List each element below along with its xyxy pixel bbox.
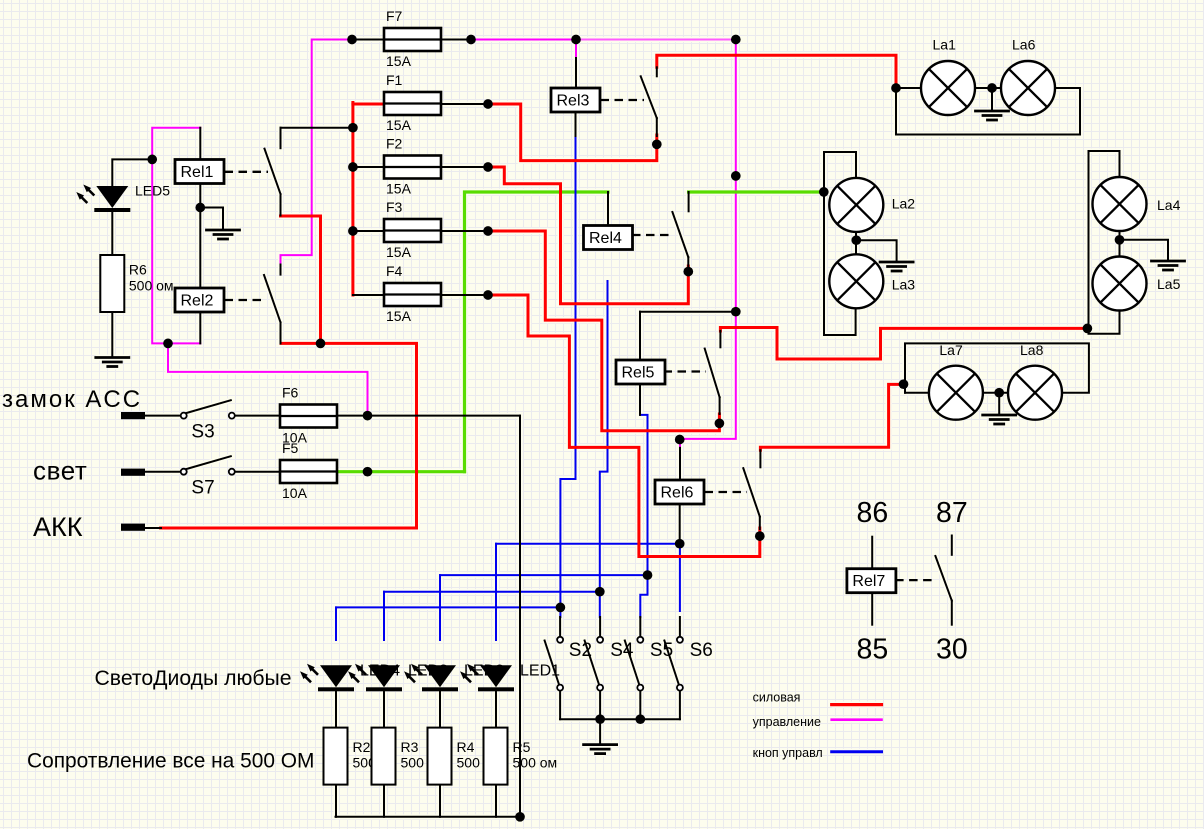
svg-text:S6: S6	[690, 640, 713, 661]
svg-text:LED5: LED5	[135, 182, 170, 198]
svg-text:F2: F2	[386, 136, 403, 152]
svg-text:F3: F3	[386, 199, 403, 215]
svg-text:R4: R4	[457, 739, 475, 755]
svg-text:85: 85	[857, 634, 889, 666]
svg-text:R3: R3	[401, 739, 419, 755]
svg-text:СветоДиоды любые: СветоДиоды любые	[95, 667, 292, 690]
svg-text:S2: S2	[569, 640, 592, 661]
svg-text:15A: 15A	[386, 181, 412, 197]
svg-text:LED1: LED1	[520, 662, 560, 679]
svg-text:S5: S5	[650, 640, 673, 661]
svg-text:Rel6: Rel6	[661, 485, 694, 502]
svg-text:30: 30	[936, 634, 968, 666]
svg-text:La4: La4	[1157, 197, 1181, 213]
svg-text:La3: La3	[892, 277, 916, 293]
svg-text:управление: управление	[753, 715, 821, 729]
svg-text:10A: 10A	[282, 485, 308, 501]
svg-text:La7: La7	[939, 342, 963, 358]
svg-text:R5: R5	[513, 739, 531, 755]
svg-text:Rel1: Rel1	[181, 164, 214, 181]
svg-text:F6: F6	[282, 385, 299, 401]
svg-text:свет: свет	[33, 456, 87, 486]
svg-text:Rel2: Rel2	[181, 293, 214, 310]
svg-text:15A: 15A	[386, 117, 412, 133]
svg-text:кноп управл: кноп управл	[753, 746, 823, 760]
svg-text:87: 87	[936, 497, 968, 529]
svg-text:F5: F5	[282, 440, 299, 456]
svg-text:La8: La8	[1020, 342, 1044, 358]
svg-text:F4: F4	[386, 263, 403, 279]
svg-text:F1: F1	[386, 72, 403, 88]
svg-text:S4: S4	[610, 640, 634, 661]
svg-text:S7: S7	[191, 478, 214, 499]
svg-text:Rel3: Rel3	[557, 93, 590, 110]
svg-text:15A: 15A	[386, 53, 412, 69]
svg-text:Rel4: Rel4	[589, 230, 622, 247]
svg-text:F7: F7	[386, 8, 403, 24]
svg-text:15A: 15A	[386, 308, 412, 324]
svg-text:86: 86	[857, 497, 889, 529]
svg-text:500 ом: 500 ом	[513, 755, 558, 771]
svg-text:S3: S3	[191, 422, 214, 443]
svg-text:силовая: силовая	[753, 690, 801, 704]
svg-text:АКК: АКК	[33, 512, 83, 542]
svg-text:La5: La5	[1157, 276, 1181, 292]
svg-text:500 ом: 500 ом	[129, 278, 174, 294]
svg-text:R6: R6	[129, 262, 147, 278]
svg-text:замок ACC: замок ACC	[2, 386, 142, 413]
svg-text:15A: 15A	[386, 244, 412, 260]
svg-text:Сопротвление все на 500 ОМ: Сопротвление все на 500 ОМ	[27, 750, 314, 773]
svg-text:Rel5: Rel5	[622, 365, 655, 382]
svg-text:La2: La2	[892, 196, 916, 212]
svg-text:La1: La1	[933, 37, 957, 53]
svg-text:R2: R2	[353, 739, 371, 755]
svg-text:La6: La6	[1012, 37, 1036, 53]
svg-text:Rel7: Rel7	[852, 573, 885, 590]
